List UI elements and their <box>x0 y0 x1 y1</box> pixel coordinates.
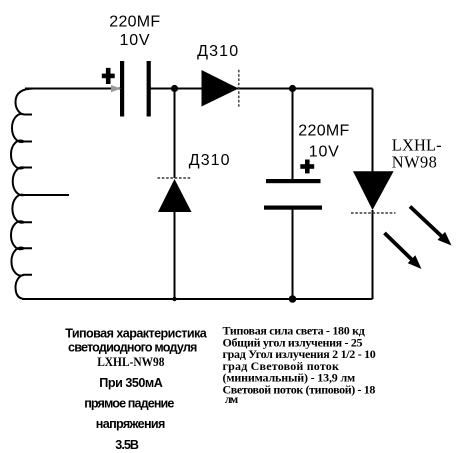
svg-text:Типовая характеристика: Типовая характеристика <box>65 327 208 341</box>
svg-text:10V: 10V <box>120 32 150 49</box>
svg-text:LXHL-NW98: LXHL-NW98 <box>97 355 164 369</box>
svg-text:лм: лм <box>225 392 238 406</box>
svg-text:Д310: Д310 <box>189 152 230 169</box>
svg-text:светодиодного модуля: светодиодного модуля <box>68 341 197 355</box>
svg-text:Световой поток (типовой) - 18: Световой поток (типовой) - 18 <box>223 383 376 397</box>
svg-text:При 350мА: При 350мА <box>99 376 163 390</box>
svg-text:напряжения: напряжения <box>96 417 166 431</box>
svg-text:220MF: 220MF <box>109 13 160 30</box>
svg-text:прямое падение: прямое падение <box>84 397 174 411</box>
svg-text:10V: 10V <box>309 143 339 160</box>
svg-text:NW98: NW98 <box>392 153 437 172</box>
svg-text:Д310: Д310 <box>197 43 238 60</box>
svg-text:3.5В: 3.5В <box>115 438 139 452</box>
svg-text:220MF: 220MF <box>298 122 349 139</box>
